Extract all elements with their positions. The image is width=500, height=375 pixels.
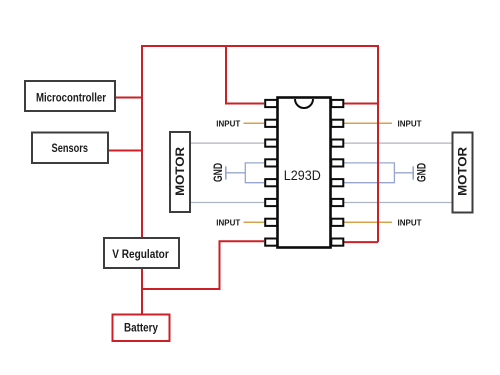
- svg-text:INPUT: INPUT: [398, 217, 423, 227]
- svg-text:GND: GND: [211, 163, 225, 182]
- svg-text:MOTOR: MOTOR: [175, 146, 187, 196]
- svg-text:V Regulator: V Regulator: [112, 247, 169, 261]
- svg-text:Sensors: Sensors: [52, 141, 89, 155]
- svg-text:Battery: Battery: [124, 321, 158, 335]
- svg-text:INPUT: INPUT: [216, 118, 241, 128]
- svg-text:GND: GND: [415, 163, 429, 182]
- svg-text:L293D: L293D: [284, 168, 321, 183]
- svg-text:INPUT: INPUT: [398, 118, 423, 128]
- svg-text:INPUT: INPUT: [216, 217, 241, 227]
- svg-text:MOTOR: MOTOR: [457, 146, 469, 196]
- svg-text:Microcontroller: Microcontroller: [36, 91, 106, 105]
